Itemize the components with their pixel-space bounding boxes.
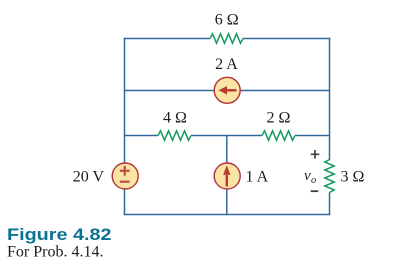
current source 2 A <box>214 77 240 103</box>
wire: center branch <box>226 136 228 216</box>
svg-text:4 Ω: 4 Ω <box>163 109 187 126</box>
wire: top row <box>124 38 330 40</box>
resistor 6 ohm <box>210 34 243 43</box>
label: vo node voltage <box>304 168 316 186</box>
svg-text:6 Ω: 6 Ω <box>215 12 239 29</box>
current source 1 A <box>214 163 240 189</box>
svg-text:v: v <box>304 168 311 184</box>
label: plus polarity of vo <box>311 150 320 159</box>
wire: bottom row <box>124 214 330 216</box>
wire: third row <box>125 135 330 137</box>
svg-text:Figure 4.82: Figure 4.82 <box>7 226 112 244</box>
wire: right rail bottom segment <box>329 193 331 216</box>
resistor 4 ohm <box>158 131 191 140</box>
resistor 2 ohm <box>262 131 295 140</box>
svg-text:o: o <box>311 175 316 186</box>
wire: right rail top segment <box>329 38 331 160</box>
resistor 3 ohm <box>325 160 334 193</box>
label: minus polarity of vo <box>311 190 319 192</box>
svg-text:For Prob. 4.14.: For Prob. 4.14. <box>7 244 103 261</box>
svg-text:1 A: 1 A <box>246 169 269 186</box>
svg-text:20 V: 20 V <box>73 169 105 186</box>
svg-text:2 A: 2 A <box>215 56 238 73</box>
svg-text:3 Ω: 3 Ω <box>341 169 365 186</box>
svg-text:2 Ω: 2 Ω <box>267 109 291 126</box>
voltage source 20 V <box>112 163 138 189</box>
wire: left rail <box>124 38 126 215</box>
wire: second row (2 A branch) <box>125 90 330 92</box>
